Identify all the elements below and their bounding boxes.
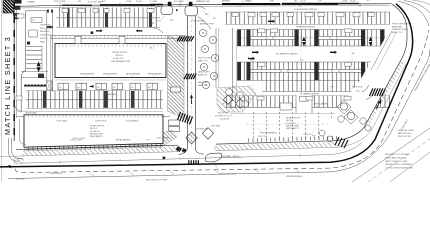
svg-text:LIGHT POLE: LIGHT POLE xyxy=(95,121,107,123)
svg-text:RETAIL SHOPS: RETAIL SHOPS xyxy=(90,125,105,128)
entrance curb returns xyxy=(153,6,161,9)
row 2 dumbbell connectors xyxy=(251,36,295,39)
pad trees xyxy=(199,29,206,36)
pad east verticals xyxy=(215,28,217,88)
entrance flare curbs xyxy=(153,28,163,33)
svg-text:TYPE F CURB: TYPE F CURB xyxy=(72,138,85,140)
svg-text:R25: R25 xyxy=(170,19,173,21)
svg-text:CONC MEDIAN: CONC MEDIAN xyxy=(191,20,205,23)
row 2 vertical arrows xyxy=(302,37,305,41)
center road lane line xyxy=(191,20,193,148)
building 1 outline xyxy=(55,44,166,78)
pork chop island xyxy=(205,153,221,162)
row 3b ticks xyxy=(262,80,385,91)
svg-text:R 25: R 25 xyxy=(157,21,161,23)
svg-text:PROP. RETENTION: PROP. RETENTION xyxy=(392,24,411,26)
svg-text:AREA SEE: AREA SEE xyxy=(392,25,403,28)
band 1 label boxes xyxy=(248,13,255,17)
svg-text:METAL AWNING: METAL AWNING xyxy=(80,72,95,75)
svg-text:R30: R30 xyxy=(205,14,208,16)
svg-text:RETAIL SHOPS: RETAIL SHOPS xyxy=(112,51,128,54)
row 3 island bars xyxy=(237,62,241,80)
svg-text:24 PARKING SPACES: 24 PARKING SPACES xyxy=(300,92,320,95)
top road north edge xyxy=(18,4,392,7)
svg-text:R3: R3 xyxy=(152,23,154,25)
svg-text:R15: R15 xyxy=(78,1,81,3)
arrow on curb C xyxy=(6,165,11,168)
flag box south xyxy=(16,96,22,100)
boxed label in lot xyxy=(280,103,292,110)
north parking bottom line xyxy=(56,26,160,28)
row 2 label boxes xyxy=(258,29,265,33)
svg-text:RETAIL SHOPS: RETAIL SHOPS xyxy=(286,117,301,120)
svg-text:PROP 6 CONC: PROP 6 CONC xyxy=(198,58,212,60)
SW walkway hatch to bus shelter xyxy=(158,130,177,146)
svg-text:20+00: 20+00 xyxy=(136,1,143,3)
svg-text:BUS SHELTER: BUS SHELTER xyxy=(195,128,209,130)
svg-text:R25: R25 xyxy=(250,59,253,61)
central double row 2 xyxy=(237,30,385,47)
svg-text:DIMS TO FACE OF CURB: DIMS TO FACE OF CURB xyxy=(385,160,408,163)
svg-text:FUTURE OF LOT 1: FUTURE OF LOT 1 xyxy=(215,116,233,118)
tree wells north comb xyxy=(67,8,70,27)
svg-text:SHEET C-8: SHEET C-8 xyxy=(392,32,403,34)
svg-text:R15: R15 xyxy=(232,87,235,89)
south parking row ticks lower xyxy=(26,100,163,108)
heavy curb segments on top road xyxy=(62,5,92,6)
aisle arrows xyxy=(252,52,257,53)
svg-text:HANDICAP: HANDICAP xyxy=(198,81,209,84)
svg-text:ASPHALT: ASPHALT xyxy=(222,0,231,3)
svg-text:NO PARKING SPACES: NO PARKING SPACES xyxy=(276,52,298,55)
entrance island west xyxy=(161,6,173,15)
svg-text:PER FDOT IDX: PER FDOT IDX xyxy=(398,136,412,138)
station tick marks xyxy=(59,3,61,7)
NE retention boundary lines xyxy=(371,31,392,70)
svg-text:PROP CURB: PROP CURB xyxy=(54,1,66,3)
svg-text:STD ASPHALT: STD ASPHALT xyxy=(126,120,140,123)
main thick curb C xyxy=(0,4,413,167)
svg-text:METAL AWNING: METAL AWNING xyxy=(116,139,131,142)
building 1 west walk edge xyxy=(50,35,52,90)
median hatch strip east xyxy=(216,142,339,151)
svg-text:22+00: 22+00 xyxy=(300,1,307,3)
building 1 bottom label boxes xyxy=(58,83,68,90)
pad east aisle edge xyxy=(232,28,234,108)
svg-text:NOTES AND SPECS. ALL: NOTES AND SPECS. ALL xyxy=(385,156,407,159)
top road second line xyxy=(18,5,392,8)
bottom intersection flares xyxy=(179,147,188,154)
svg-text:METAL AWNING: METAL AWNING xyxy=(126,72,141,75)
center road west curb xyxy=(187,16,189,147)
zebra crosswalk on SE road xyxy=(370,88,373,96)
traffic arrows west aisle xyxy=(37,61,41,66)
svg-text:METAL AWNING: METAL AWNING xyxy=(314,103,329,106)
svg-text:WALL: WALL xyxy=(40,40,45,43)
drawing border line xyxy=(0,0,2,182)
svg-text:SIGN: SIGN xyxy=(30,1,35,3)
svg-text:RAMP TYP: RAMP TYP xyxy=(198,84,208,87)
hatched building stub cut by match line xyxy=(3,0,14,13)
row 3 label boxes xyxy=(258,62,265,66)
match line (heavy) xyxy=(13,0,15,141)
svg-text:SEE SHEET C-2 FOR GENL: SEE SHEET C-2 FOR GENL xyxy=(385,154,409,156)
tree wells in south comb xyxy=(43,91,46,108)
svg-text:METAL AWNING: METAL AWNING xyxy=(148,72,163,75)
svg-text:(RETAIL USE): (RETAIL USE) xyxy=(90,132,103,135)
row 3 dumbbell connector xyxy=(251,70,362,73)
svg-text:49.0: 49.0 xyxy=(150,48,154,50)
north aisle arrows xyxy=(96,30,100,31)
svg-text:NO PARKING: NO PARKING xyxy=(104,93,116,96)
svg-text:GRADING PLAN: GRADING PLAN xyxy=(392,28,408,31)
hatched diagonal walk band xyxy=(168,36,185,118)
west strip label box 1 xyxy=(31,18,42,23)
svg-text:CONC: CONC xyxy=(126,1,132,3)
svg-text:CURB CUT: CURB CUT xyxy=(303,134,314,136)
shrub scallop row xyxy=(24,84,46,86)
svg-text:MATCH EXIST: MATCH EXIST xyxy=(50,172,63,175)
utility dashed verticals xyxy=(252,25,254,95)
median hatch strip west xyxy=(22,146,178,156)
svg-text:23+00: 23+00 xyxy=(350,1,357,3)
NW driveway curbs xyxy=(46,11,48,90)
west parking stall ticks xyxy=(26,46,42,71)
future lot frontage ticks xyxy=(246,136,338,142)
north parking row ticks (upper) xyxy=(56,8,160,18)
center road east curb xyxy=(194,16,196,149)
future pad top line xyxy=(230,113,340,115)
zebra crosswalk 3 xyxy=(178,112,181,120)
svg-text:EXIST EDGE OF PVMT: EXIST EDGE OF PVMT xyxy=(146,180,168,182)
top-right corner outer curves xyxy=(398,1,429,26)
svg-text:18.0: 18.0 xyxy=(294,0,298,2)
transformer pad xyxy=(47,81,53,90)
zebra crosswalk 2 xyxy=(184,74,187,80)
drive aisle curb line xyxy=(17,110,164,112)
central comb band 4 xyxy=(225,96,390,108)
curb ramp blobs xyxy=(176,146,183,152)
svg-text:(RETAIL USE): (RETAIL USE) xyxy=(286,124,299,127)
west strip label box 2 xyxy=(29,30,37,37)
building 2 storefront ticks xyxy=(28,143,162,150)
building 1 entry vestibules xyxy=(75,36,81,43)
west strip bottom curbs xyxy=(21,71,48,73)
central double row 3 xyxy=(237,62,385,80)
svg-text:NOTE: ALL CURB: NOTE: ALL CURB xyxy=(398,129,414,132)
site curb A (inner) xyxy=(16,4,407,150)
building 2 storefront ticks top xyxy=(25,115,162,117)
svg-text:R/W: R/W xyxy=(270,1,274,3)
entrance gateposts xyxy=(168,2,172,6)
dim ticks on lower lines xyxy=(90,173,94,176)
plaza pocket hatch xyxy=(217,86,256,112)
svg-text:CONTACT ENG W/ QUESTIONS: CONTACT ENG W/ QUESTIONS xyxy=(385,167,414,170)
west strip boundary xyxy=(21,11,26,112)
svg-text:RESTAURANT USE: RESTAURANT USE xyxy=(111,60,130,63)
walk edge below building 1 xyxy=(55,79,166,81)
corner hatch pork chop xyxy=(14,158,23,163)
svg-text:24,800 S.F.: 24,800 S.F. xyxy=(113,58,124,60)
mask beyond site curb xyxy=(330,4,407,143)
match line branch arc xyxy=(14,102,21,111)
svg-text:R3: R3 xyxy=(352,53,354,55)
svg-text:BLDG 1: BLDG 1 xyxy=(116,55,124,57)
svg-text:SOD TYP: SOD TYP xyxy=(258,136,267,138)
building 1 storefront ticks xyxy=(56,44,165,47)
svg-text:25,000 SF: 25,000 SF xyxy=(220,119,230,121)
svg-text:CONC PAD: CONC PAD xyxy=(210,124,220,127)
svg-text:R1-1: R1-1 xyxy=(356,91,360,93)
stop bar dashes xyxy=(188,160,189,164)
row 2 island bars xyxy=(237,30,241,47)
aisle arrow xyxy=(89,85,94,87)
svg-text:ENCLOSURE: ENCLOSURE xyxy=(40,28,53,30)
svg-text:METAL AWNING: METAL AWNING xyxy=(103,72,118,75)
SE corner crosswalk dashes xyxy=(335,137,339,145)
SE median landscape diamonds + trees xyxy=(337,100,351,114)
match line bottom curves xyxy=(9,138,20,161)
building 1 front sidewalk band xyxy=(50,35,186,38)
svg-text:PLANS TYP: PLANS TYP xyxy=(40,34,51,37)
svg-text:STOP SIGN: STOP SIGN xyxy=(352,87,363,89)
road arrow on diagonal xyxy=(377,102,380,110)
hatch median along diagonal road xyxy=(367,60,405,124)
south parking row ticks upper xyxy=(26,91,163,100)
svg-text:CONC MEDIAN: CONC MEDIAN xyxy=(156,137,170,140)
svg-text:WALK TYP: WALK TYP xyxy=(198,60,208,63)
svg-text:UNLESS NOTED OTHERWISE: UNLESS NOTED OTHERWISE xyxy=(385,164,412,166)
svg-text:MATCH LINE SHEET 3: MATCH LINE SHEET 3 xyxy=(3,36,12,135)
svg-text:FUTURE PARKING: FUTURE PARKING xyxy=(260,131,277,134)
central comb band 1 xyxy=(225,12,390,24)
curb B (median south edge) xyxy=(0,64,406,157)
svg-text:IS TYPE F UNO: IS TYPE F UNO xyxy=(398,133,412,135)
north parking center line xyxy=(56,17,160,19)
zebra crosswalk 1 xyxy=(177,36,180,41)
dashed centerline D xyxy=(15,30,429,173)
svg-text:30 BUFFERING SPACES: 30 BUFFERING SPACES xyxy=(294,8,318,11)
NE driveway curbs xyxy=(362,85,369,92)
svg-text:AREA TYP: AREA TYP xyxy=(198,73,208,76)
building 2 bottom edges xyxy=(24,145,163,149)
future lot dashed stalls xyxy=(246,111,340,138)
edge of pavement line xyxy=(20,142,362,163)
svg-text:LANDSCAPE: LANDSCAPE xyxy=(198,70,210,73)
svg-text:R/W LINE: R/W LINE xyxy=(16,178,25,180)
svg-text:(LAUREL WAY): (LAUREL WAY) xyxy=(221,154,239,158)
svg-text:6 HIGH: 6 HIGH xyxy=(40,38,47,40)
entrance island east xyxy=(185,6,198,16)
bldg2 west approach curb xyxy=(20,119,27,144)
secondary boundary line xyxy=(16,10,18,118)
bus shelter diamonds xyxy=(186,132,197,144)
far outer lines SE corner xyxy=(352,128,430,182)
svg-text:CONC: CONC xyxy=(342,0,348,2)
svg-text:SEE ARCH: SEE ARCH xyxy=(40,30,50,33)
svg-text:6 CURB: 6 CURB xyxy=(150,1,158,3)
svg-text:EX 5 WALK: EX 5 WALK xyxy=(174,0,185,3)
svg-text:WINTER AVENUE: WINTER AVENUE xyxy=(286,175,303,178)
west strip top edge xyxy=(26,10,49,12)
svg-text:12.5: 12.5 xyxy=(366,0,370,2)
outer road edge E xyxy=(8,50,430,179)
driveway notch through band 4 xyxy=(296,95,312,113)
north parking row ticks (lower) xyxy=(56,18,160,27)
road arrow xyxy=(191,97,193,104)
svg-text:CONC WALK: CONC WALK xyxy=(56,120,68,123)
dark cluster at match line / road junction xyxy=(13,13,19,16)
svg-text:SEE SHEET 5: SEE SHEET 5 xyxy=(286,128,300,130)
building 2 outline xyxy=(24,115,163,147)
svg-text:SEE SHEET 4: SEE SHEET 4 xyxy=(90,136,104,138)
drive aisle curb line 2 xyxy=(17,116,171,118)
label boxes in north comb xyxy=(62,9,68,13)
flag box near road xyxy=(17,14,24,18)
